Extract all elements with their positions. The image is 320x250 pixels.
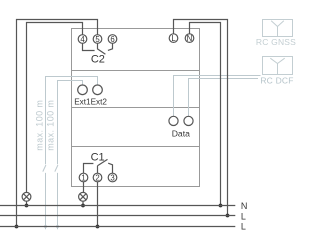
- svg-text:RC DCF: RC DCF: [260, 75, 293, 85]
- wire lamp E1 to N rail: [26, 201, 28, 205]
- terminal Data-1: [169, 116, 178, 125]
- junction light S2/L rail: [44, 225, 47, 228]
- wire Ext2 to external push-button (light): [46, 77, 98, 165]
- terminal L: [169, 34, 178, 43]
- lamp E1: [22, 192, 31, 201]
- wire terminal 4 to lamp E1: [27, 23, 83, 193]
- svg-text:Data: Data: [172, 128, 190, 138]
- svg-text:C1: C1: [91, 151, 105, 163]
- terminal Data-2: [184, 116, 193, 125]
- svg-text:N: N: [187, 34, 193, 43]
- terminal 3: [108, 173, 117, 182]
- wire Data-1 to RC DCF antenna (light): [174, 76, 261, 117]
- wire terminal 2 to bottom L rail: [97, 182, 99, 227]
- svg-text:RC GNSS: RC GNSS: [256, 37, 296, 47]
- changeover contact C1: [84, 159, 113, 173]
- N rail: [0, 205, 235, 207]
- terminal 1: [79, 173, 88, 182]
- svg-text:Ext1Ext2: Ext1Ext2: [74, 97, 107, 106]
- svg-text:L: L: [171, 34, 176, 43]
- device divider 1: [72, 70, 200, 72]
- junction lamp E2/N rail: [81, 204, 85, 208]
- terminal 6: [108, 35, 117, 44]
- L rail (bottom): [0, 226, 235, 228]
- svg-text:4: 4: [80, 35, 85, 44]
- svg-text:C2: C2: [91, 53, 105, 65]
- junction 5-wire/L rail: [15, 225, 19, 229]
- svg-text:3: 3: [110, 173, 114, 182]
- svg-text:max. 100 m: max. 100 m: [46, 100, 56, 151]
- RC GNSS antenna symbol: [271, 21, 284, 37]
- push-button S1 blade: [55, 165, 58, 172]
- junction light S1/L rail: [56, 225, 59, 228]
- junction L-wire/L rail: [226, 214, 230, 218]
- junction lamp E1/N rail: [25, 204, 29, 208]
- device divider 2: [72, 107, 200, 109]
- terminal 2: [93, 173, 102, 182]
- push-button S2 blade: [43, 165, 46, 172]
- wire Data-2 to RC DCF antenna (light): [189, 79, 259, 117]
- svg-text:5: 5: [95, 35, 100, 44]
- changeover contact C2: [83, 43, 113, 54]
- lamp E2: [79, 192, 88, 201]
- wire terminal N loop to N rail: [190, 23, 221, 206]
- terminal 4: [78, 35, 87, 44]
- wire Ext1 to external push-button (light): [58, 81, 83, 165]
- terminal Ext1: [78, 85, 88, 95]
- junction N-wire/N rail: [219, 204, 223, 208]
- junction 2-wire/L rail: [96, 225, 100, 229]
- L rail (middle): [0, 215, 235, 217]
- wire push-button S1 to L rail (light): [57, 173, 59, 229]
- terminal N: [185, 34, 194, 43]
- terminal Ext2: [93, 85, 103, 95]
- svg-text:N: N: [241, 201, 248, 211]
- svg-text:L: L: [241, 222, 246, 232]
- wire terminal 1 to lamp E2: [83, 182, 85, 193]
- wire terminal L loop to middle L rail: [174, 20, 228, 216]
- svg-text:6: 6: [110, 35, 114, 44]
- svg-text:2: 2: [95, 173, 99, 182]
- wire push-button S2 to L rail (light): [45, 173, 47, 229]
- device divider 3: [72, 146, 200, 148]
- RC GNSS antenna box: [263, 20, 293, 37]
- terminal 5: [93, 35, 102, 44]
- wire lamp E2 to N rail: [82, 201, 84, 205]
- RC DCF antenna box: [263, 57, 293, 75]
- svg-text:L: L: [241, 211, 246, 221]
- wire terminal 5 loop to bottom L rail: [17, 20, 98, 227]
- device outline (time switch body): [72, 29, 200, 187]
- RC DCF antenna symbol: [270, 58, 284, 74]
- svg-text:1: 1: [81, 173, 85, 182]
- svg-text:max. 100 m: max. 100 m: [34, 100, 44, 151]
